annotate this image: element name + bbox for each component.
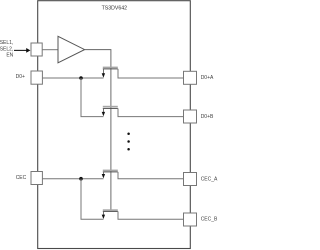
pin D0+B box [184,110,197,123]
transistor SW2 gate bar [103,106,118,108]
transistor SW4 source lead [103,211,105,215]
transistor SW2 drain lead [118,108,184,116]
arrowhead SW4 source [102,215,105,219]
svg-text:D0+: D0+ [16,74,25,80]
svg-text:EN: EN [6,53,13,59]
node ellipsis repeated channels [127,132,130,135]
arrowhead SW1 source [102,73,105,77]
wire SEL input arrow line [14,49,27,51]
svg-text:CEC: CEC [16,175,27,181]
transistor SW2 source lead [103,108,105,113]
transistor SW4 channel [103,210,118,212]
transistor SW1 source lead [103,69,105,74]
transistor SW3 channel [103,171,118,173]
transistor SW1 channel [103,68,118,70]
wire buffer output to control rail [85,50,111,211]
svg-text:CEC_B: CEC_B [201,216,218,222]
arrowhead SEL input [26,48,30,53]
chip outline U1 TS3DV642 [38,1,191,249]
wire CEC branch down to SW4 source [81,179,104,220]
arrowhead SW2 source [102,112,105,116]
op-amp buffer A1 (control buffer triangle) [58,36,85,63]
arrowhead SW3 source [102,174,105,178]
svg-text:SEL1,: SEL1, [0,40,13,46]
pin CEC box [31,172,42,185]
node junction CEC branch [79,177,83,181]
pin D0+A box [184,71,197,84]
transistor SW1 gate bar [103,66,118,68]
wire D0+ branch down to SW2 source [81,78,104,117]
svg-text:TS3DV642: TS3DV642 [102,6,127,12]
wire SEL box to buffer input [43,49,59,51]
svg-text:CEC_A: CEC_A [201,177,218,183]
transistor SW1 drain lead [118,69,184,78]
wire D0+ to SW1 source [43,77,104,79]
pin SEL/EN box [31,43,42,56]
pin CEC_B box [184,213,197,226]
transistor SW3 gate bar [103,169,118,171]
pin CEC_A box [184,173,197,186]
node junction D0+ branch [79,76,83,80]
pin D0+ box [31,71,42,84]
transistor SW3 drain lead [118,172,184,179]
transistor SW4 drain lead [118,211,184,219]
transistor SW4 gate bar [103,209,118,211]
transistor SW3 source lead [103,172,105,175]
wire CEC to SW3 source [43,178,104,180]
svg-text:D0+B: D0+B [201,114,214,120]
svg-text:D0+A: D0+A [201,75,214,81]
svg-text:SEL2,: SEL2, [0,46,13,52]
transistor SW2 channel [103,107,118,109]
